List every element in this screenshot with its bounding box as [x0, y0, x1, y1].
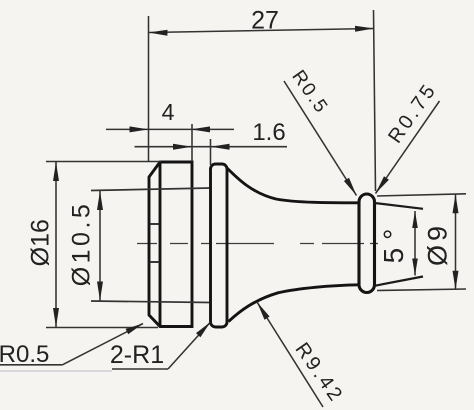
faint scan artifact line — [0, 370, 112, 372]
flange chamfer inner line — [159, 162, 162, 327]
svg-text:5°: 5° — [378, 221, 409, 264]
svg-text:R0.5: R0.5 — [0, 341, 49, 368]
dim Ø10.5 arrow bottom — [97, 282, 103, 301]
label R0.75 leader — [376, 101, 440, 194]
dim 27 left extension line — [148, 16, 150, 162]
label R0.5 top leader — [284, 81, 357, 196]
svg-text:Ø16: Ø16 — [27, 219, 55, 266]
dim Ø16 top extension line — [46, 161, 161, 163]
label R0.5 bottom arrow — [126, 324, 143, 335]
label R0.5 bottom underline — [0, 364, 62, 366]
label R0.5 top arrow — [344, 178, 357, 196]
collar — [211, 164, 228, 327]
dim 4 arrow left — [130, 126, 149, 132]
trumpet top contour — [227, 168, 359, 203]
centerline — [137, 243, 378, 245]
svg-text:Ø10.5: Ø10.5 — [68, 201, 96, 287]
dim Ø9 arrow bottom — [453, 271, 459, 290]
dim Ø9 line — [455, 194, 457, 289]
flange band tick lower — [149, 261, 160, 263]
label R9.42 arrow — [257, 302, 270, 320]
svg-text:1.6: 1.6 — [252, 119, 285, 146]
label R0.75 arrow — [376, 176, 389, 193]
dim Ø9 arrow top — [453, 194, 459, 213]
svg-text:27: 27 — [251, 7, 279, 35]
label 2-R1 leader — [168, 322, 211, 369]
dim 4 line — [106, 128, 234, 130]
dim Ø16 line — [55, 162, 57, 328]
dim 4 arrow right — [191, 126, 210, 132]
dim 27 line — [149, 29, 375, 33]
groove top line / Ø10.5 extension — [91, 188, 211, 191]
dim Ø16 arrow top — [53, 162, 59, 181]
flange band tick upper — [149, 223, 160, 225]
tip bead (pill) — [359, 194, 375, 293]
svg-text:Ø9: Ø9 — [423, 222, 453, 266]
dim Ø9 top extension line — [377, 194, 466, 196]
groove bottom line / Ø10.5 extension — [91, 301, 211, 303]
dim Ø16 arrow bottom — [53, 308, 59, 327]
dim 27 arrow left — [149, 30, 168, 36]
dim 1.6 line — [135, 146, 288, 148]
dim 27 right extension line — [374, 10, 376, 191]
label R9.42 leader — [257, 302, 323, 407]
dim Ø9 bottom extension line — [377, 289, 466, 291]
dim Ø10.5 arrow top — [97, 191, 103, 210]
dim 5deg arrow bottom — [412, 259, 418, 276]
dim 1.6 arrow right — [211, 144, 230, 150]
label R0.5 bottom leader — [62, 324, 143, 365]
dim 1.6 ext line left — [191, 124, 193, 161]
label 2-R1 arrow — [196, 322, 211, 337]
dim 1.6 arrow left — [173, 144, 192, 150]
dim 5deg arrow top — [412, 211, 418, 228]
dim 1.6 ext line right — [210, 139, 212, 165]
trumpet bottom contour — [229, 285, 360, 322]
dim 5deg line — [414, 211, 416, 276]
svg-text:2-R1: 2-R1 — [110, 341, 164, 369]
taper 5deg bottom line — [375, 277, 424, 286]
label 2-R1 underline — [112, 368, 168, 370]
dim Ø10.5 line — [99, 191, 101, 302]
dim Ø16 bottom extension line — [46, 327, 158, 329]
dim 27 arrow right — [355, 26, 374, 32]
svg-text:4: 4 — [162, 99, 175, 125]
flange head outline — [149, 162, 192, 327]
taper 5deg top line — [375, 203, 424, 209]
